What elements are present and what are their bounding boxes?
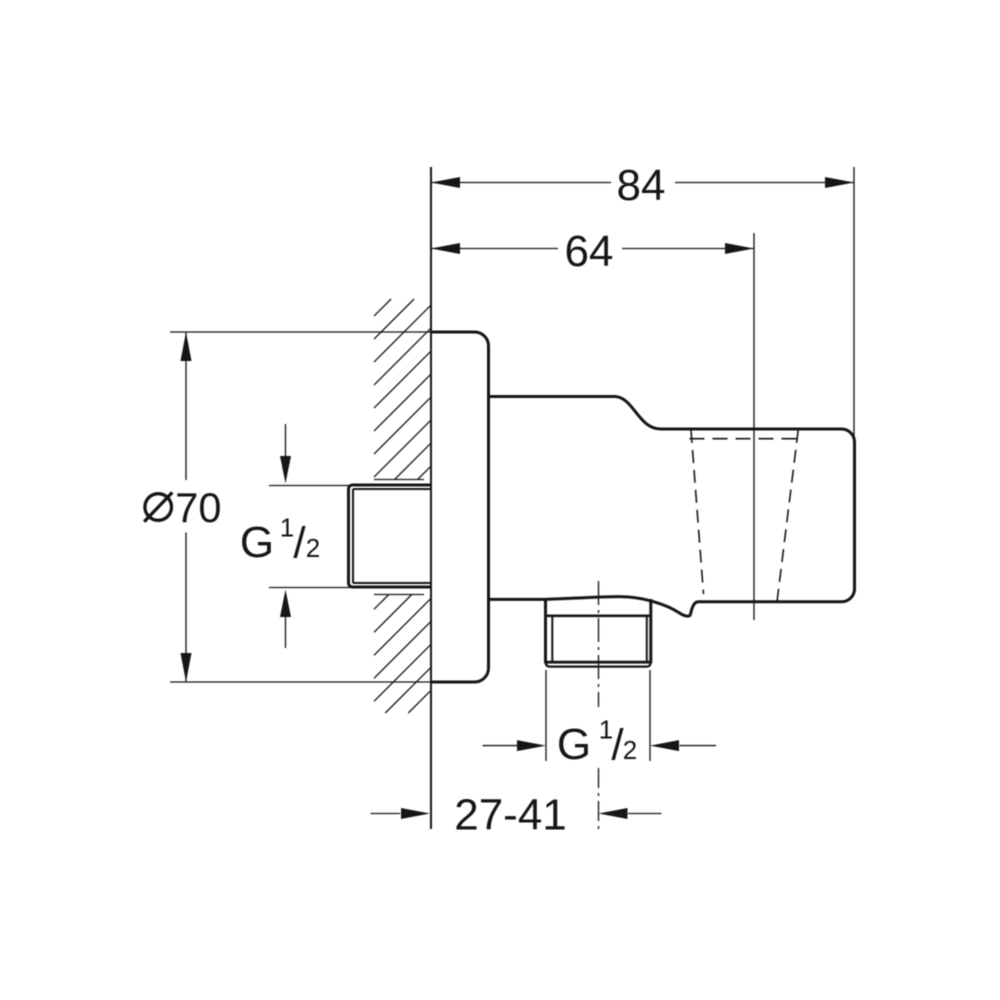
dimension 84 arrow right bbox=[825, 177, 854, 188]
inlet thread root lines bbox=[353, 489, 431, 583]
dimension 84 extension line right bbox=[853, 167, 855, 437]
bottom G1/2 dim line right bbox=[680, 745, 717, 747]
dimension O70 bottom tick bbox=[170, 681, 431, 683]
left G1/2 arrow bottom bbox=[280, 590, 291, 649]
dimension O70 text bbox=[144, 484, 221, 531]
dimension 64 extension / cone centerline bbox=[753, 233, 755, 620]
left G1/2 extension top bbox=[269, 485, 350, 487]
flange outline bbox=[431, 332, 489, 682]
dimension 84 line bbox=[431, 182, 854, 184]
svg-text:84: 84 bbox=[617, 161, 666, 210]
left G1/2 extension bottom bbox=[269, 587, 350, 589]
svg-text:2: 2 bbox=[306, 533, 320, 563]
outlet thread outline bbox=[546, 599, 651, 663]
dimension O70 arrow up bbox=[181, 332, 192, 361]
svg-text:2: 2 bbox=[623, 735, 637, 765]
outlet thread bottom edge bbox=[546, 662, 651, 667]
dimension O70 top tick bbox=[170, 331, 431, 333]
wall hole edge upper bbox=[374, 479, 424, 481]
inlet thread outline bbox=[349, 485, 432, 587]
wall hole edge lower bbox=[374, 594, 424, 596]
wall hatching lower bbox=[374, 595, 431, 714]
dimension O70 line bbox=[185, 332, 187, 682]
holder cone dashed left bbox=[691, 430, 704, 594]
wall hatching upper bbox=[374, 299, 431, 480]
dimension 64 line bbox=[431, 248, 754, 250]
dimension 84 arrow left bbox=[431, 177, 460, 188]
outlet thread chamfer line bbox=[547, 661, 650, 664]
svg-text:70: 70 bbox=[175, 484, 221, 531]
svg-text:27-41: 27-41 bbox=[454, 791, 567, 840]
bottom G1/2 extension right bbox=[649, 670, 651, 761]
dimension 27-41 line left bbox=[371, 813, 401, 815]
dimension 64 arrow left bbox=[431, 243, 460, 254]
left G1/2 arrow top bbox=[280, 424, 291, 484]
svg-text:G: G bbox=[240, 518, 274, 567]
dimension 27-41 arrow left bbox=[401, 808, 430, 819]
bottom G1/2 arrow right bbox=[650, 740, 679, 751]
dimension 64 arrow right bbox=[725, 243, 754, 254]
bottom G1/2 extension left bbox=[545, 670, 547, 761]
body outline top bbox=[489, 397, 855, 617]
outlet centerline bbox=[598, 581, 600, 707]
holder cone dashed top bbox=[690, 438, 798, 440]
svg-text:G: G bbox=[557, 720, 591, 769]
svg-text:64: 64 bbox=[565, 227, 614, 276]
dimension 27-41 arrow right bbox=[599, 808, 628, 819]
bottom G1/2 dim line left bbox=[483, 745, 518, 747]
svg-text:/: / bbox=[293, 519, 306, 568]
outlet thread shoulder line bbox=[547, 614, 650, 617]
svg-text:1: 1 bbox=[280, 513, 294, 543]
wall face line bbox=[430, 167, 432, 829]
bottom G1/2 arrow left bbox=[517, 740, 546, 751]
left G1/2 text bbox=[240, 513, 320, 568]
bottom G1/2 text bbox=[557, 715, 637, 770]
dimension 27-41 line right bbox=[628, 813, 662, 815]
outlet thread root lines bbox=[552, 616, 647, 661]
holder cone dashed right bbox=[777, 430, 798, 602]
dimension O70 arrow down bbox=[181, 653, 192, 682]
